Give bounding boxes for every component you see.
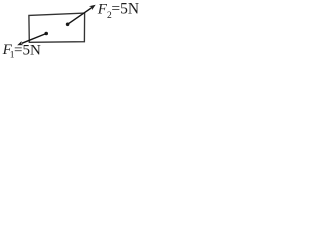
svg-text:=5N: =5N — [14, 42, 41, 58]
svg-text:=5N: =5N — [111, 1, 139, 18]
rectangle body — [29, 13, 85, 42]
force F2 application point (dot) — [66, 23, 70, 27]
force F1 application point (dot) — [44, 32, 48, 36]
force F2 arrowhead — [89, 5, 96, 11]
force F2 vector arrow — [68, 7, 93, 24]
force F1 vector arrow — [22, 34, 47, 44]
force F1 arrowhead — [17, 41, 23, 45]
